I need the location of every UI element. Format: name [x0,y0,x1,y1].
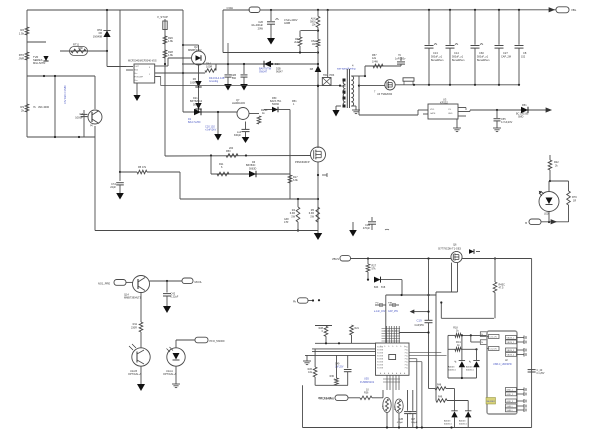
svg-text:GND: GND [448,113,453,115]
svg-text:1W: 1W [291,215,295,218]
svg-text:AUX: AUX [311,18,316,21]
svg-text:BenaWhen: BenaWhen [431,59,444,62]
svg-text:R49: R49 [438,397,443,399]
svg-text:BenaWhen: BenaWhen [452,59,465,62]
svg-text:100R: 100R [206,65,212,69]
svg-text:VCONN: VCONN [377,356,384,358]
svg-text:FUSB15101: FUSB15101 [360,380,375,384]
svg-text:HHD04403: HHD04403 [232,101,245,105]
svg-text:6003C1: 6003C1 [444,424,452,426]
svg-text:R21: R21 [355,327,360,330]
svg-text:C47: C47 [411,419,416,421]
svg-text:Q6: Q6 [453,243,457,247]
svg-text:CAP_2M: CAP_2M [501,56,511,59]
svg-text:1W: 1W [310,215,314,218]
svg-text:1/4W: 1/4W [372,60,378,63]
svg-text:C60: C60 [479,51,484,55]
svg-text:420B: 420B [284,21,290,25]
svg-text:SW347: SW347 [259,71,268,74]
svg-text:VDD: VDD [430,109,435,111]
svg-text:B: B [525,221,527,225]
svg-text:BenaWhen: BenaWhen [477,59,490,62]
svg-text:0.22uF: 0.22uF [171,296,179,299]
svg-text:VBUS_3: VBUS_3 [507,350,516,352]
svg-text:R50: R50 [226,150,231,153]
svg-text:100R: 100R [190,81,196,84]
svg-text:1.8k: 1.8k [168,39,174,43]
svg-text:C30A: C30A [227,6,234,10]
svg-text:OPTICAL-A: OPTICAL-A [163,373,177,376]
svg-text:NO1_PRE: NO1_PRE [98,282,110,286]
svg-text:2k: 2k [481,342,483,344]
svg-text:6V8: 6V8 [381,286,386,289]
svg-text:P3B: P3B [388,302,393,304]
svg-text:2k: 2k [481,334,483,336]
svg-text:VBUS_4: VBUS_4 [507,355,516,357]
svg-text:SI7779CDN-T1-GE3: SI7779CDN-T1-GE3 [438,247,462,250]
svg-text:1.5k: 1.5k [19,31,25,35]
svg-text:RT11: RT11 [73,43,80,47]
svg-text:1N5408: 1N5408 [93,34,103,38]
svg-text:5063D: 5063D [272,103,279,106]
svg-text:C2B: C2B [399,419,404,421]
svg-text:U3 TSM2N60: U3 TSM2N60 [377,93,393,96]
svg-text:500V: 500V [310,22,316,24]
svg-text:(e): (e) [90,124,93,127]
svg-text:CC1_IN: CC1_IN [490,337,498,339]
svg-text:JNb 4000: JNb 4000 [38,105,50,109]
svg-text:PR3: PR3 [330,74,335,77]
svg-text:C27: C27 [503,51,508,55]
svg-text:96347: 96347 [276,71,283,74]
svg-text:C19: C19 [417,319,423,323]
svg-text:VCONN: VCONN [377,365,384,367]
svg-text:VBUS: VBUS [332,257,339,261]
svg-text:8: 8 [149,67,150,69]
svg-text:RxD: RxD [134,70,138,72]
svg-text:VBUS_1: VBUS_1 [507,338,516,340]
svg-text:A5003: A5003 [444,420,451,423]
svg-text:R48: R48 [437,385,442,387]
svg-text:C/V R20 C1N80: C/V R20 C1N80 [63,85,67,104]
svg-text:100pF: 100pF [411,422,418,424]
svg-text:1.8k: 1.8k [168,53,174,57]
svg-text:17R: 17R [284,221,289,224]
svg-text:6003C1: 6003C1 [466,370,474,372]
svg-text:4.7uF,20V: 4.7uF,20V [501,121,513,124]
svg-text:D51: D51 [522,104,527,107]
svg-text:6.8k: 6.8k [293,179,298,182]
svg-text:VCONN: VCONN [377,350,384,352]
svg-text:PFC_5ALMB: PFC_5ALMB [318,397,332,400]
svg-text:CAP_25V: CAP_25V [388,310,399,313]
svg-text:C14: C14 [454,51,459,55]
svg-text:FOSC/MP: FOSC/MP [134,77,143,79]
svg-text:5063D: 5063D [249,167,257,170]
svg-text:C13: C13 [433,51,438,55]
svg-text:A5003: A5003 [466,366,473,369]
svg-text:20W: 20W [258,26,264,30]
svg-text:470pF: 470pF [363,227,371,230]
svg-text:100uF: 100uF [75,116,83,120]
svg-text:VCONN: VCONN [377,362,384,364]
svg-text:5: 5 [149,74,150,76]
svg-text:OPTICAL-A: OPTICAL-A [128,373,142,376]
svg-text:560: 560 [232,77,237,80]
svg-text:47.5: 47.5 [499,287,504,290]
svg-text:VCONN: VCONN [377,353,384,355]
svg-text:Vcc: Vcc [134,73,137,75]
svg-text:1nF/100v: 1nF/100v [395,58,406,61]
svg-text:Grundig: Grundig [209,79,219,83]
svg-text:P6NK60ZFP: P6NK60ZFP [295,160,310,164]
svg-text:VBL: VBL [571,8,577,12]
svg-text:C_40: C_40 [537,369,543,372]
svg-text:MCOL: MCOL [195,280,203,284]
svg-text:C49: C49 [335,363,340,366]
svg-text:D20: D20 [275,63,280,66]
svg-text:SHELL: SHELL [507,410,514,412]
svg-text:B43: B43 [374,286,379,289]
svg-text:A5003: A5003 [459,420,466,423]
svg-text:MCP2040/MCP2040-I/SS: MCP2040/MCP2040-I/SS [128,60,157,63]
svg-text:VCONN: VCONN [377,368,384,370]
svg-text:1R: 1R [573,200,576,203]
svg-text:200: 200 [229,147,234,150]
svg-text:PD: PD [376,302,379,304]
svg-text:A5003: A5003 [448,366,455,369]
svg-text:SH-GND1: SH-GND1 [487,401,496,403]
svg-text:MMBT3904LT1: MMBT3904LT1 [124,297,142,300]
svg-text:C8: C8 [523,51,527,55]
svg-text:0.1,25V: 0.1,25V [537,373,545,375]
svg-text:330pF: 330pF [234,134,242,137]
svg-text:a.1uF_16V: a.1uF_16V [374,311,386,313]
svg-text:VBUS_2: VBUS_2 [507,342,516,344]
svg-text:470pF: 470pF [397,422,404,424]
svg-text:GND_1: GND_1 [507,390,515,392]
svg-text:GATE: GATE [430,112,436,115]
svg-text:TR1: TR1 [323,74,328,77]
svg-text:Vss: Vss [134,80,137,82]
svg-text:CAP,25V: CAP,25V [415,324,425,327]
svg-text:SMD: SMD [518,116,524,119]
svg-text:+2nF/2kV: +2nF/2kV [205,128,216,132]
svg-text:R36: R36 [364,392,369,395]
svg-text:D52: D52 [311,41,316,43]
svg-text:6003C1: 6003C1 [448,370,456,372]
svg-text:GND_2: GND_2 [507,394,515,396]
svg-text:GND_3: GND_3 [507,401,515,403]
svg-text:22pF: 22pF [110,186,116,189]
svg-text:152: 152 [521,56,526,59]
svg-text:VCONN: VCONN [377,359,384,361]
svg-text:JNR: JNR [19,56,24,60]
svg-text:5063D: 5063D [193,103,201,106]
svg-text:sae-specifi-ering: sae-specifi-ering [337,68,356,71]
svg-text:MILLIVITR: MILLIVITR [33,61,46,65]
svg-text:V_STUP: V_STUP [157,15,168,19]
svg-text:PFO_5NOFF: PFO_5NOFF [210,339,226,343]
svg-text:CC2_IN: CC2_IN [490,349,498,351]
svg-text:BA4.7L250: BA4.7L250 [188,121,201,124]
svg-text:A5R: A5R [78,47,83,50]
svg-text:6003C1: 6003C1 [459,424,467,426]
svg-text:230R: 230R [131,327,137,330]
svg-text:LED: LED [544,213,549,216]
svg-text:USB-C_UNFSPD: USB-C_UNFSPD [493,363,512,366]
